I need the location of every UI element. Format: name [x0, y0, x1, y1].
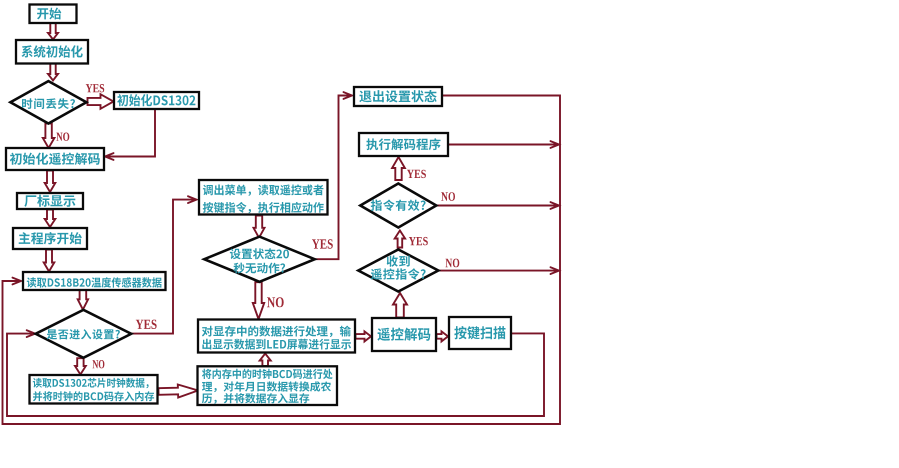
label NO (enter setting) — [93, 360, 105, 368]
diamond: 是否进入设置? (enter setting) — [36, 310, 132, 358]
wire: received-command NO to right bus — [439, 267, 560, 274]
arrow: system init -> time-lost diamond — [48, 64, 58, 81]
wire: execute-decode to right bus — [448, 141, 559, 148]
arrow: read DS18B20 -> enter-setting diamond — [78, 290, 88, 310]
arrow: time-lost YES -> init DS1302 — [88, 94, 114, 109]
arrow: enter-setting NO -> read DS1302 clock — [75, 358, 86, 374]
arrow: call-menu -> 20s-no-action diamond — [254, 216, 265, 238]
label YES (command valid) — [407, 170, 426, 178]
box: 调出菜单 2lines — [199, 180, 328, 215]
arrow: logo display -> main start — [45, 210, 56, 228]
box: 初始化遥控解码 — [6, 148, 104, 170]
label YES (enter setting) — [136, 320, 157, 329]
box: 初始化DS1302 — [114, 92, 199, 109]
diamond: 指令有效? (command valid) — [360, 184, 436, 228]
arrow: display-memory -> remote decode — [356, 331, 372, 341]
box: 读取DS18B20温度传感器数据 — [23, 272, 166, 290]
box: 对显存中的数据 2lines — [198, 320, 355, 353]
box: 执行解码程序 (execute decode) — [359, 133, 448, 156]
box: 读取DS1302芯片时钟数据 2lines — [30, 375, 158, 404]
box: 按键扫描 (key scan) — [449, 317, 511, 349]
label NO (time lost) — [56, 133, 69, 141]
box: 开始 (start) — [30, 5, 77, 24]
wire: outer loop exit-setting back to read DS18B20 — [3, 96, 561, 425]
arrow: time-lost NO -> init remote decode — [43, 124, 55, 149]
box: 将内存中的时钟BCD码 3lines — [198, 366, 338, 405]
arrow: start -> system init — [48, 23, 58, 40]
label YES (no action) — [312, 239, 333, 248]
label NO (command valid) — [441, 192, 455, 201]
diamond: 收到遥控指令? (received command) — [358, 250, 438, 292]
box: 系统初始化 (system init) — [16, 40, 88, 64]
wire: command-valid NO to right bus — [436, 202, 559, 209]
arrow: lunar process -> display-memory box — [260, 354, 271, 367]
label YES (time lost) — [86, 84, 104, 92]
arrow: read DS1302 clock -> lunar process box — [158, 385, 198, 398]
arrow: remote decode -> received-command diamond — [393, 293, 407, 318]
label NO (received command) — [446, 259, 460, 268]
diamond: 时间丢失? (time lost) — [10, 81, 86, 123]
arrow: main start -> read DS18B20 — [44, 250, 55, 272]
box: 主程序开始 (main start) — [13, 228, 87, 249]
box: 厂标显示 (logo display) — [17, 193, 83, 209]
wire: enter-setting YES up to call-menu box — [131, 196, 197, 333]
arrow: init remote decode -> logo display — [45, 171, 56, 193]
label YES (received command) — [409, 237, 428, 245]
wire: DS1302 init back to remote-decode init — [105, 109, 155, 160]
wire: no-action YES up to exit-setting box — [314, 92, 352, 259]
diamond: 设置状态20秒无动作? — [204, 237, 314, 282]
wire: inner loop keyscan back to enter-setting diamond — [7, 330, 544, 416]
box: 退出设置状态 (exit setting) — [354, 87, 442, 106]
label NO (no action) — [267, 297, 284, 307]
box: 遥控解码 (remote decode) — [372, 318, 436, 351]
arrow: 20s-no-action NO -> display-memory box — [253, 282, 264, 319]
arrow: remote decode -> key scan — [437, 331, 449, 341]
arrow: received-command YES -> command-valid diamond — [395, 231, 405, 248]
arrow: command-valid YES -> execute decode — [392, 157, 405, 180]
